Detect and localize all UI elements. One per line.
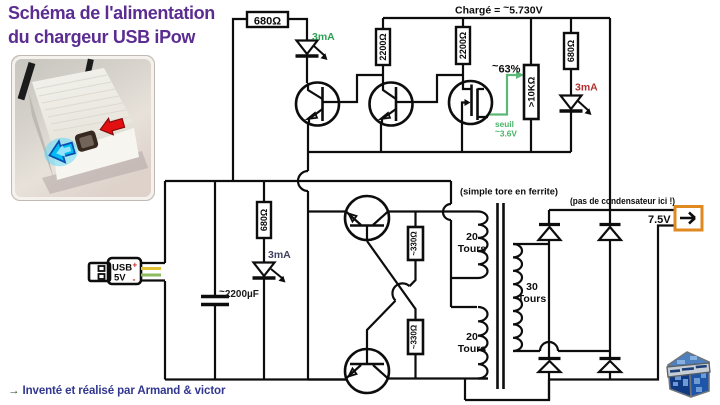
label 3mA green LED1 [312, 31, 335, 43]
wire 330R-2 bottom lead [414, 354, 416, 379]
wire top-left rail (node V+ to 680R top) [233, 19, 247, 181]
wire left rail upper (USB+ to V+) [164, 181, 166, 263]
wire V+ drop to transformer centre tap with hop [443, 181, 451, 307]
svg-text:20: 20 [466, 231, 478, 243]
wire left section bottom rail (ground) [165, 378, 346, 380]
LED3 red indicator [560, 96, 592, 116]
wire Q1 base to node at 2200R-1 bottom [323, 75, 384, 102]
svg-text:20: 20 [466, 331, 478, 343]
wire capacitor top lead [214, 181, 216, 295]
wire rectified output plus rail [549, 209, 675, 211]
svg-text:5V: 5V [114, 273, 126, 284]
wire output return line [549, 226, 675, 380]
svg-text:2200Ω: 2200Ω [378, 33, 388, 60]
svg-text:(simple tore en ferrite): (simple tore en ferrite) [460, 187, 558, 197]
wire mid emitter rail [308, 151, 571, 153]
wire LED2 cathode to ground rail [263, 278, 265, 380]
wire bridge right leg [609, 240, 611, 380]
svg-text:~63%: ~63% [492, 61, 521, 76]
wire primary return drop to bottom link [464, 379, 466, 401]
LED2 indicator [253, 263, 286, 283]
transistor Q2 [370, 83, 413, 126]
svg-text:~3.6V: ~3.6V [495, 126, 517, 139]
wire 680R-left top lead [263, 181, 265, 202]
wire Q3 collector to primary W1 top [388, 210, 478, 212]
wire secondary top to bridge left leg [513, 243, 549, 245]
wire 330R-2 top to Q3 base (cross link) [367, 241, 416, 320]
svg-text:Tours: Tours [458, 243, 487, 255]
svg-text:Chargé = ~5.730V: Chargé = ~5.730V [455, 2, 543, 17]
wire top supply rail (Chargé node) [383, 17, 610, 19]
svg-text:(pas de condensateur ici !): (pas de condensateur ici !) [570, 196, 675, 206]
wire Q2 base to node at 2200R-2 bottom [396, 75, 463, 102]
output connector orange box [675, 207, 702, 231]
wire capacitor bottom lead [214, 306, 216, 380]
wire Q4 emitter from bottom rail [308, 378, 346, 380]
svg-text:2200Ω: 2200Ω [458, 32, 468, 59]
wire 680R-right bottom to LED3 anode [570, 69, 572, 95]
resistor 680Ω top (horizontal) [247, 12, 288, 28]
transistor Q1 [296, 83, 339, 126]
wire V+ horizontal line [165, 180, 451, 182]
svg-text:-: - [133, 275, 136, 285]
resistor 2200Ω left (vertical) [376, 29, 390, 65]
wire MOSFET source to mid rail [461, 122, 463, 152]
resistor >10KΩ (vertical) [524, 65, 539, 119]
label Chargé voltage [455, 2, 543, 17]
wire 330R-1 top lead [414, 212, 416, 228]
wire right sense line from top rail to bridge output [609, 18, 611, 224]
wire 680R-right top lead from top rail [570, 18, 572, 33]
wire LED1 cathode to Q1 collector [306, 57, 308, 83]
wire 330R-1 bottom to Q4 base (cross link, hopped) [367, 260, 416, 349]
USB plug body [108, 258, 141, 285]
svg-text:680Ω: 680Ω [566, 40, 576, 62]
wire 2200R-1 bottom to Q2 collector [382, 65, 384, 84]
USB data wire green [141, 274, 161, 277]
wire 2200R-1 top to top rail [382, 18, 384, 29]
wire LED3 cathode to mid rail [570, 111, 572, 152]
capacitor 2200µF [201, 297, 229, 305]
MOSFET M1 [449, 81, 492, 124]
svg-text:Tours: Tours [458, 343, 487, 355]
transformer secondary winding (30 tours) [513, 244, 522, 351]
resistor 330Ω upper (vertical) [408, 227, 423, 260]
label 30 Tours [518, 281, 547, 305]
resistor 680Ω left (vertical) [257, 202, 271, 238]
wire USB plus lead [141, 262, 165, 264]
resistor 680Ω right (vertical) [564, 33, 578, 69]
diode D4 bridge bottom-right [599, 359, 621, 373]
svg-text:30: 30 [526, 281, 538, 293]
wire USB minus lead [141, 279, 165, 281]
transformer core [498, 203, 504, 389]
transistor Q3 oscillator top [345, 196, 389, 240]
label pas de condensateur [570, 196, 675, 206]
label 20 Tours upper [458, 231, 487, 255]
wire 2200R-2 bottom to MOSFET drain [462, 64, 464, 82]
resistor 2200Ω right (vertical) [456, 27, 470, 64]
label simple tore en ferrite [460, 187, 558, 197]
wire Q1 emitter to mid rail [307, 123, 309, 152]
label 3mA red LED3 [575, 82, 598, 94]
wire 680R-left bottom to LED2 anode [263, 238, 265, 262]
title [8, 2, 215, 49]
svg-text:680Ω: 680Ω [254, 16, 281, 28]
label ~63% [492, 61, 521, 76]
wire emitter rail drop with hop over V+ line [298, 152, 308, 380]
wire >10k bottom lead to mid rail [530, 119, 532, 152]
svg-text:~330Ω: ~330Ω [410, 324, 419, 349]
svg-text:~2200µF: ~2200µF [219, 287, 259, 301]
transistor Q4 oscillator bottom [345, 349, 389, 393]
svg-text:3mA: 3mA [312, 31, 335, 43]
wire Q2 emitter to mid rail [380, 123, 382, 152]
svg-text:7.5V: 7.5V [648, 214, 671, 226]
transformer primary winding W2 (20 tours) [478, 307, 488, 379]
svg-text:~330Ω: ~330Ω [410, 231, 419, 256]
wire bottom link to bridge minus [465, 380, 549, 401]
svg-text:>10KΩ: >10KΩ [527, 76, 538, 107]
label 3mA LED2 [268, 249, 291, 261]
wire 2200R-2 top lead [462, 18, 464, 27]
svg-text:Tours: Tours [518, 293, 547, 305]
wire Q4 collector line to W2 bottom [388, 377, 488, 379]
label 2200µF [219, 287, 259, 301]
svg-text:680Ω: 680Ω [259, 209, 269, 231]
diode D1 bridge top-left [539, 225, 561, 241]
LED1 green indicator [296, 41, 328, 61]
wire >10k top lead from top rail [530, 18, 532, 65]
resistor 330Ω lower (vertical) [408, 320, 423, 354]
svg-text:3mA: 3mA [268, 249, 291, 261]
wire left rail lower (USB- to ground) [164, 281, 166, 380]
diode D3 bridge bottom-left [539, 359, 561, 373]
logo cube [663, 348, 713, 400]
wire centre tap to primary W2 top [451, 306, 477, 308]
label seuil 3.6V [495, 119, 517, 139]
svg-text:3mA: 3mA [575, 82, 598, 94]
caption credit [8, 385, 225, 397]
photo of iPow charger [11, 55, 155, 201]
label 7.5V [648, 214, 671, 226]
wire 680R-top to LED1 anode [288, 19, 307, 40]
diode D2 bridge top-right [599, 225, 621, 241]
label 20 Tours lower [458, 331, 487, 355]
wire bridge left leg [548, 210, 550, 400]
svg-text:+: + [133, 261, 138, 270]
wire secondary bottom to bridge right leg with hop [513, 342, 610, 351]
USB data wire yellow [141, 267, 161, 270]
USB connector shell with pins [89, 263, 110, 281]
node centre tap upper: wire to primary W1 bottom [451, 277, 477, 279]
green feedback wire with arrow [490, 71, 524, 115]
transformer primary winding W1 (20 tours) [477, 212, 488, 279]
wire Q3 emitter from oscillator rail [308, 210, 346, 212]
